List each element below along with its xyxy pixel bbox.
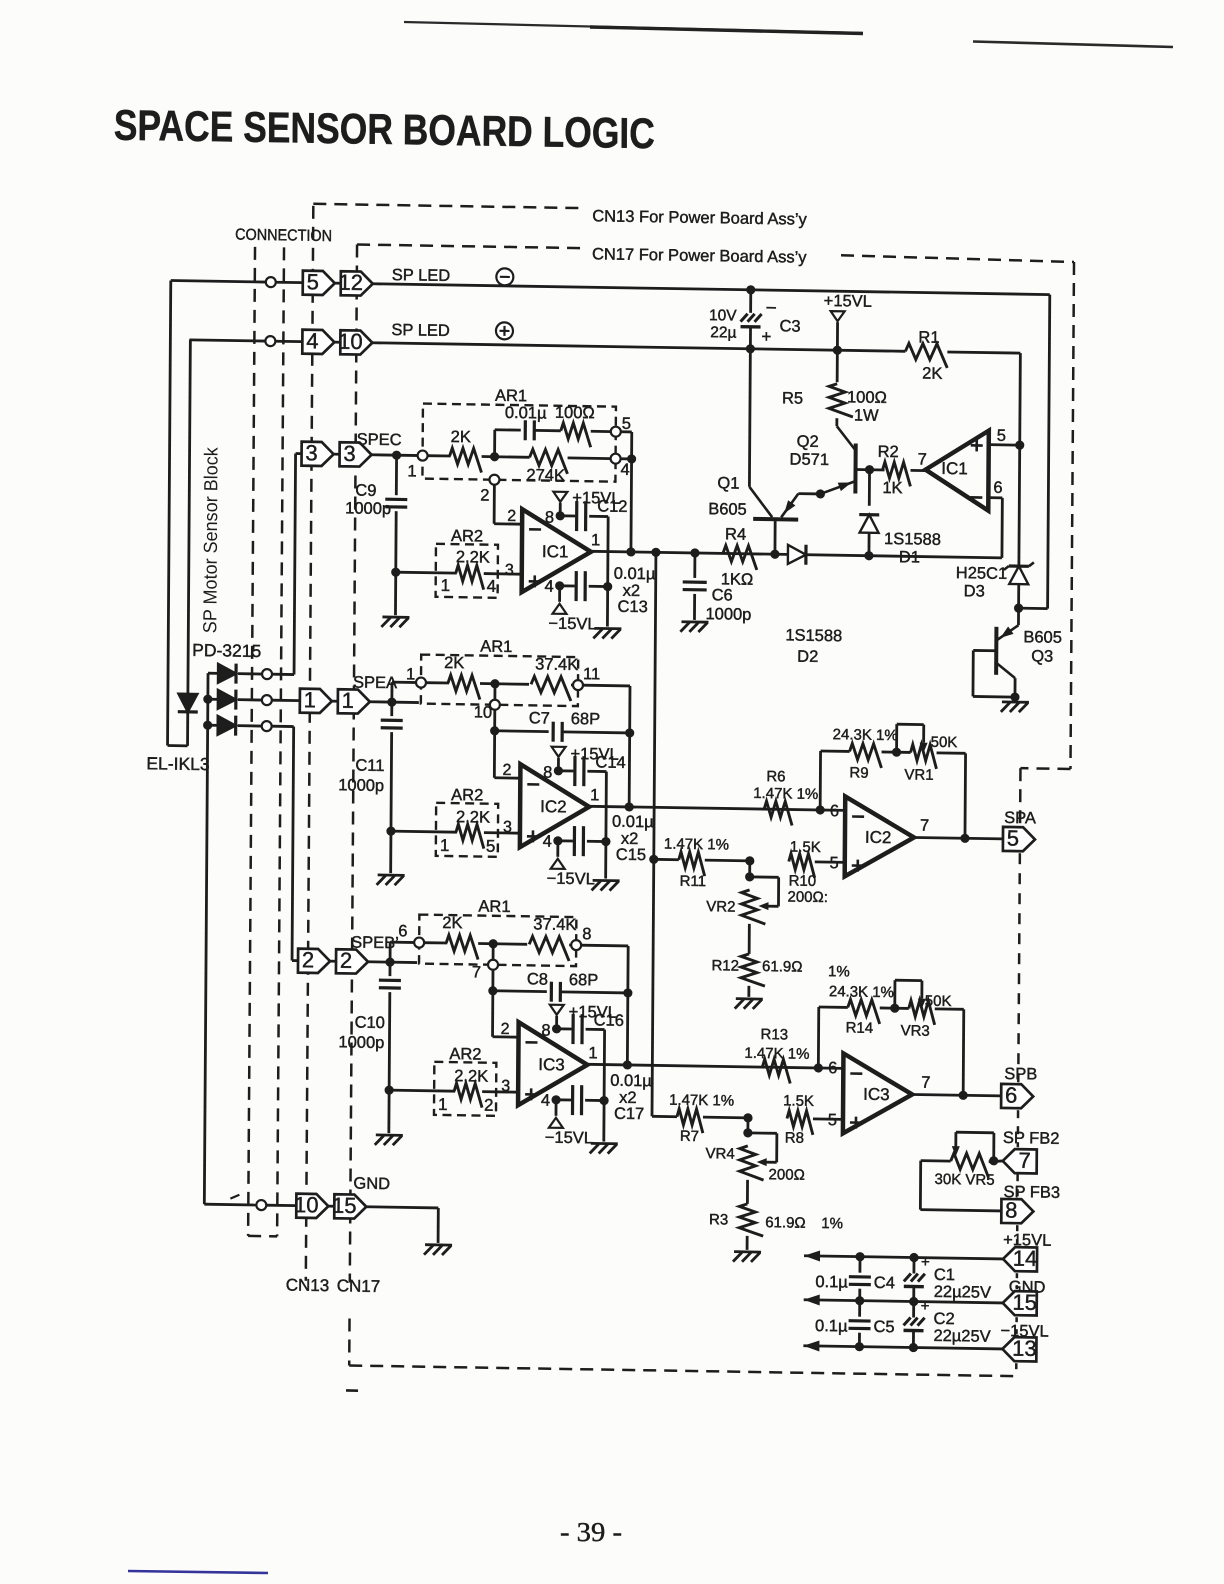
wire SPEA connector to node: [369, 700, 419, 704]
connector CN17 pin 10: [340, 330, 372, 355]
svg-text:−15VL: −15VL: [545, 1129, 593, 1148]
junction C1 bottom: [909, 1297, 918, 1306]
wire SP LED- bus: [372, 284, 1050, 295]
svg-text:SPEA: SPEA: [353, 673, 397, 692]
diode D2 1S1588: [788, 545, 806, 564]
svg-text:6: 6: [828, 1059, 837, 1077]
resistor R5: [836, 350, 839, 382]
svg-text:2: 2: [507, 508, 516, 525]
junction C1 top: [909, 1253, 918, 1262]
transistor Q1 B605: [798, 492, 820, 495]
svg-text:0.1µ: 0.1µ: [815, 1317, 848, 1336]
wire C12/C13 to ground: [606, 517, 610, 627]
svg-text:2: 2: [501, 1021, 510, 1038]
resistor R8 1.5K: [787, 1110, 813, 1134]
AR1 box SPEC: [422, 404, 616, 482]
resistor R11 row: [654, 858, 679, 861]
wire IC3 output row: [587, 1064, 843, 1068]
connector CN17 pin 1: [338, 689, 370, 714]
svg-text:B605: B605: [708, 500, 747, 519]
capacitor C9: [395, 455, 398, 495]
svg-text:5: 5: [307, 269, 319, 294]
op-amp IC2 left: [520, 764, 590, 848]
svg-text:1: 1: [440, 836, 450, 855]
svg-text:1.5K: 1.5K: [790, 839, 821, 856]
pin 6 wire: [988, 496, 1002, 499]
wire node5/node4 to output col: [621, 430, 632, 433]
wire GND to ground: [365, 1207, 438, 1208]
svg-text:+: +: [921, 1298, 930, 1315]
connector CN17 pin 15: [334, 1194, 366, 1219]
svg-text:C1: C1: [934, 1266, 955, 1284]
svg-text:CONNECTION: CONNECTION: [235, 227, 332, 246]
resistor R1: [905, 343, 947, 368]
svg-text:−: −: [766, 298, 777, 319]
svg-text:1000p: 1000p: [345, 499, 391, 518]
svg-text:2: 2: [502, 762, 511, 779]
svg-text:0.01µ: 0.01µ: [610, 1072, 652, 1091]
VR5 wiper bracket: [992, 1133, 995, 1161]
wire C9 to ground: [394, 572, 397, 615]
LED EL-IKL3: [178, 694, 197, 712]
junction C5 bottom: [855, 1342, 864, 1351]
CN17 boundary dashed line: [350, 245, 357, 1283]
wire to cap row: [493, 430, 496, 457]
capacitor C2 22u: [912, 1302, 915, 1318]
svg-text:7: 7: [921, 1074, 930, 1092]
svg-text:8: 8: [1005, 1197, 1017, 1222]
svg-text:- 39 -: - 39 -: [560, 1517, 622, 1547]
contact circle photodiode top: [262, 669, 272, 679]
scan artifact top line left: [404, 22, 863, 33]
svg-text:7: 7: [918, 451, 927, 469]
junction output/feedback col SPEA: [625, 802, 634, 811]
photodiode top: [208, 672, 219, 675]
connector CN13 pin 2: [298, 949, 330, 974]
svg-text:8: 8: [545, 509, 554, 527]
connector CN17 pin 2: [336, 949, 368, 974]
wire VR5 left loop: [921, 1159, 951, 1162]
svg-text:10: 10: [474, 703, 492, 721]
capacitor C4 0.1u: [859, 1257, 862, 1273]
capacitor C14: [558, 769, 573, 772]
svg-text:R3: R3: [709, 1211, 728, 1228]
wire node7 to pin2 IC3L: [491, 991, 494, 1037]
svg-text:5: 5: [1007, 825, 1019, 850]
svg-text:6: 6: [1005, 1082, 1017, 1107]
svg-text:1.47K 1%: 1.47K 1%: [753, 785, 818, 803]
resistor R9: [849, 743, 881, 768]
svg-text:EL-IKL3: EL-IKL3: [146, 753, 209, 774]
pin 4 -15VL IC3L: [551, 1095, 560, 1104]
capacitor C8 68P: [493, 989, 547, 993]
junction C11 bottom: [386, 826, 395, 835]
svg-text:2.2K: 2.2K: [456, 808, 490, 827]
svg-text:5: 5: [622, 415, 631, 433]
svg-text:R14: R14: [846, 1019, 874, 1036]
op-amp IC2 right: [845, 796, 915, 877]
svg-text:12: 12: [338, 270, 363, 295]
svg-text:+15VL: +15VL: [824, 292, 872, 311]
node 1 SPEC: [418, 451, 428, 461]
junction output/node4 col: [626, 547, 635, 556]
svg-text:2: 2: [480, 487, 489, 505]
capacitor C12: [560, 514, 575, 517]
connector CN13 pin 3: [302, 442, 334, 467]
resistor 2K AR1 SPEA: [426, 681, 449, 684]
ground IC3L bypass: [591, 1142, 618, 1145]
resistor 37.4K AR1 SPEA: [531, 676, 571, 701]
resistor 2K AR1 SPEC: [428, 454, 451, 457]
wire left vertical from SP LED- down: [168, 281, 171, 746]
pin 8 +15VL IC2L: [554, 766, 563, 775]
ground C11: [378, 874, 405, 877]
svg-text:1: 1: [441, 576, 451, 595]
GND row wire: [204, 1203, 256, 1207]
wire IC2 output row: [589, 806, 845, 810]
pin 5 wire: [989, 443, 1020, 446]
ground R3: [734, 1250, 761, 1253]
capacitor C15: [558, 839, 573, 842]
resistor R6: [764, 801, 792, 825]
node 6 SPEB: [414, 938, 424, 948]
junction AR1 mid SPEA: [490, 679, 499, 688]
svg-text:30K VR5: 30K VR5: [935, 1171, 995, 1189]
junction C8 right: [623, 988, 632, 997]
svg-text:R9: R9: [849, 764, 868, 781]
capacitor 0.01u AR1 SPEC: [524, 420, 527, 440]
AR2 box SPEC: [436, 544, 498, 598]
svg-text:2: 2: [484, 1096, 494, 1115]
node 11 SPEA: [573, 680, 583, 690]
trimmer VR2: [748, 861, 751, 877]
svg-text:2.2K: 2.2K: [456, 548, 490, 567]
CN13 boundary dashed line: [306, 206, 314, 1281]
contact circle row2: [265, 336, 275, 346]
capacitor C17: [556, 1098, 571, 1101]
capacitor C5 0.1u: [858, 1301, 861, 1317]
junction D1 top: [865, 465, 874, 474]
svg-text:R11: R11: [680, 873, 707, 890]
svg-text:7: 7: [472, 963, 481, 981]
connector 14: [1003, 1247, 1037, 1272]
connector SP FB2 7: [1003, 1149, 1037, 1174]
svg-text:IC3: IC3: [863, 1085, 890, 1104]
svg-text:IC3: IC3: [538, 1055, 565, 1074]
svg-text:61.9Ω: 61.9Ω: [765, 1214, 806, 1232]
resistor R4: [723, 545, 757, 570]
svg-text:C11: C11: [355, 757, 384, 775]
junction C9 bottom: [391, 567, 400, 576]
svg-text:AR2: AR2: [451, 527, 483, 546]
connector 13: [1002, 1337, 1036, 1362]
wire SP LED+ row left: [189, 340, 265, 341]
trimmer VR3 50K: [909, 1000, 935, 1024]
junction SPEA: [387, 697, 396, 706]
svg-text:7: 7: [1019, 1148, 1031, 1173]
svg-text:1: 1: [342, 688, 354, 713]
trimmer VR1 50K: [910, 744, 936, 768]
svg-text:R5: R5: [782, 389, 803, 407]
scan artifact top line right: [973, 42, 1173, 48]
junction C15 col: [601, 837, 610, 846]
svg-text:AR2: AR2: [451, 786, 483, 805]
svg-text:PD-3215: PD-3215: [192, 640, 261, 661]
svg-text:2: 2: [340, 948, 352, 973]
connector CN13 pin 1: [300, 689, 332, 714]
svg-text:2K: 2K: [442, 914, 462, 932]
svg-text:C10: C10: [355, 1014, 385, 1032]
junction C9 top: [392, 450, 401, 459]
svg-text:2K: 2K: [922, 365, 942, 383]
wire Q1 base down: [774, 519, 777, 554]
svg-text:24.3K 1%: 24.3K 1%: [829, 983, 894, 1001]
svg-text:0.01µ: 0.01µ: [505, 404, 547, 423]
svg-text:D2: D2: [797, 648, 818, 666]
ground Q3: [1014, 697, 1017, 700]
svg-text:VR4: VR4: [705, 1145, 734, 1162]
junction R14/VR3 wiper: [890, 1004, 899, 1013]
svg-text:IC1: IC1: [941, 459, 968, 478]
junction VR1 output: [960, 834, 969, 843]
photodiode mid: [208, 698, 219, 701]
ground R12: [736, 997, 763, 1000]
junction R6/R9: [816, 805, 825, 814]
wire photodiode bottom to SPEB: [272, 725, 294, 728]
connector SP FB3 8: [1001, 1199, 1033, 1224]
contact circle row1: [266, 277, 276, 287]
svg-text:0.1µ: 0.1µ: [815, 1273, 848, 1292]
svg-text:22µ25V: 22µ25V: [934, 1283, 991, 1302]
svg-text:R2: R2: [878, 443, 899, 461]
svg-text:CN13: CN13: [286, 1275, 330, 1295]
wire IC2R output to SPA: [915, 838, 1003, 839]
svg-text:VR2: VR2: [706, 898, 735, 915]
contact circle GND row: [256, 1200, 266, 1210]
pin 4 -15VL: [555, 581, 564, 590]
transistor Q2 D571: [835, 418, 838, 426]
resistor R13: [762, 1059, 790, 1083]
resistor 2.2K AR2 SPEA: [391, 831, 457, 832]
resistor R14: [848, 999, 880, 1024]
wire photodiode mid to SPEA connector: [272, 699, 300, 702]
wire node8 to col: [581, 944, 628, 948]
junction R11/R10/VR2: [649, 855, 658, 864]
svg-text:+: +: [761, 327, 771, 346]
ground C6: [681, 620, 708, 623]
wire SP LED- right vertical: [1048, 295, 1050, 609]
resistor R2: [856, 468, 885, 471]
Q3 base bracket: [973, 649, 996, 652]
svg-text:C13: C13: [617, 598, 647, 616]
svg-text:IC1: IC1: [542, 542, 569, 561]
wire SPEB up to node6: [389, 942, 392, 962]
svg-text:8: 8: [543, 764, 552, 782]
contact circle photodiode mid: [262, 695, 272, 705]
svg-text:100Ω: 100Ω: [847, 388, 887, 407]
svg-text:1.47K 1%: 1.47K 1%: [664, 835, 729, 853]
svg-text:GND: GND: [353, 1175, 390, 1194]
resistor 2.2K AR2 SPEB: [389, 1090, 455, 1091]
op-amp IC1 left: [522, 509, 592, 593]
wire +15VL rail: [804, 1256, 1003, 1259]
node 1 SPEA: [416, 678, 426, 688]
wire Q1 collector to C3: [748, 349, 752, 487]
svg-text:1K: 1K: [882, 479, 902, 497]
wire IC1L output row: [591, 551, 1002, 558]
wire VR3 to output: [962, 1009, 965, 1095]
resistor R3: [746, 1180, 749, 1204]
svg-text:13: 13: [1012, 1336, 1037, 1361]
junction C7 left: [490, 726, 499, 735]
junction C4 top: [855, 1252, 864, 1261]
svg-text:200Ω:: 200Ω:: [787, 888, 828, 906]
svg-text:C9: C9: [355, 482, 376, 500]
svg-text:11: 11: [583, 665, 600, 683]
svg-text:1: 1: [590, 786, 599, 804]
resistor R7 row: [652, 1115, 677, 1118]
wire GND rail: [804, 1300, 1003, 1303]
svg-text:1.5K: 1.5K: [783, 1092, 814, 1109]
svg-text:SP FB2: SP FB2: [1003, 1129, 1060, 1148]
svg-text:CN17 For Power Board Ass’y: CN17 For Power Board Ass’y: [592, 245, 807, 266]
wire node11 to col: [583, 684, 630, 688]
power +15VL top: [831, 311, 845, 321]
junction C10 bottom: [385, 1085, 394, 1094]
svg-text:−15VL: −15VL: [547, 870, 595, 889]
svg-text:C2: C2: [934, 1310, 955, 1328]
wire node7 to C8 row: [491, 970, 494, 991]
junction VR5 right: [989, 1156, 998, 1165]
svg-text:C3: C3: [779, 317, 800, 335]
svg-text:C4: C4: [874, 1274, 895, 1292]
connector CN17 pin 12: [341, 271, 373, 296]
svg-text:Q2: Q2: [797, 433, 819, 451]
svg-text:6: 6: [398, 922, 407, 940]
ground C10: [376, 1134, 403, 1137]
svg-text:C5: C5: [873, 1318, 894, 1336]
svg-text:50K: 50K: [925, 993, 952, 1010]
junction D1 bottom: [864, 551, 873, 560]
svg-text:SP Motor Sensor Block: SP Motor Sensor Block: [200, 447, 222, 634]
node 8 SPEB: [571, 940, 581, 950]
junction +15VL node: [833, 346, 842, 355]
svg-text:2K: 2K: [444, 654, 464, 672]
svg-text:3: 3: [305, 440, 317, 465]
plus-circle symbol: [496, 322, 513, 339]
pin 8 +15VL IC3L: [552, 1024, 561, 1033]
node 4 SPEC: [611, 454, 621, 464]
svg-text:VR3: VR3: [901, 1022, 930, 1039]
svg-text:7: 7: [920, 817, 929, 835]
svg-text:37.4K: 37.4K: [535, 655, 578, 674]
svg-text:IC2: IC2: [865, 828, 892, 847]
zener diode D3 H25C1: [1017, 445, 1021, 566]
junction C2 bottom: [909, 1343, 918, 1352]
svg-text:3: 3: [503, 819, 512, 836]
svg-text:3: 3: [505, 562, 514, 579]
wire SPEA up to node1: [390, 682, 393, 702]
trimmer VR5 30K: [951, 1153, 989, 1178]
capacitor C1 22u: [913, 1258, 916, 1274]
wire LED cathode bracket: [168, 744, 188, 747]
svg-text:22µ25V: 22µ25V: [933, 1327, 990, 1346]
svg-text:15: 15: [1012, 1290, 1037, 1315]
ground C9: [382, 616, 409, 619]
svg-text:4: 4: [544, 578, 553, 596]
resistor 100ohm AR1 SPEC: [561, 423, 591, 447]
CN17 boundary dashed segments between connectors: [1018, 853, 1020, 1082]
svg-text:274K: 274K: [526, 466, 565, 485]
svg-text:SP LED: SP LED: [391, 321, 450, 340]
svg-text:1S1588: 1S1588: [785, 626, 842, 645]
svg-text:Q3: Q3: [1031, 647, 1053, 665]
svg-text:1.47K 1%: 1.47K 1%: [744, 1045, 809, 1063]
svg-text:VR1: VR1: [904, 766, 933, 783]
svg-text:B605: B605: [1023, 628, 1062, 647]
wire C16/C17 ground col: [602, 1030, 606, 1142]
svg-text:0.01µ: 0.01µ: [612, 813, 654, 832]
diode D1 1S1588: [868, 470, 871, 506]
svg-text:SPEC: SPEC: [357, 431, 402, 450]
svg-text:10V: 10V: [709, 307, 737, 324]
node 10 SPEA: [493, 684, 496, 700]
trimmer VR4: [746, 1118, 749, 1133]
capacitor C6: [693, 553, 696, 578]
svg-text:1%: 1%: [821, 1215, 843, 1232]
svg-text:50K: 50K: [931, 734, 958, 751]
svg-text:H25C1: H25C1: [956, 564, 1007, 583]
svg-text:AR1: AR1: [480, 638, 512, 657]
photodiode common anode vertical wire: [204, 673, 208, 1204]
svg-text:D571: D571: [790, 450, 830, 469]
resistor 37.4K AR1 SPEB: [529, 936, 569, 961]
ground IC2L bypass: [593, 879, 620, 882]
resistor 2K AR1 SPEB: [424, 941, 447, 944]
junction pin5/R1: [1015, 440, 1024, 449]
svg-text:2.2K: 2.2K: [454, 1067, 488, 1086]
wire node10 to pin2: [493, 731, 496, 778]
svg-text:R13: R13: [761, 1026, 789, 1043]
svg-text:1000p: 1000p: [705, 605, 751, 624]
CONNECTION dashed box: [248, 247, 255, 1236]
pin 4 -15VL IC2L: [553, 836, 562, 845]
resistor 2.2K AR2 SPEC: [396, 571, 457, 575]
svg-text:4: 4: [541, 1092, 550, 1110]
svg-text:SPACE SENSOR BOARD LOGIC: SPACE SENSOR BOARD LOGIC: [114, 102, 655, 159]
photodiode bottom: [208, 724, 219, 727]
junction C8 left: [488, 986, 497, 995]
junction D3/Q3/SP LED-: [1014, 603, 1023, 612]
svg-text:SP LED: SP LED: [392, 266, 451, 285]
svg-text:2K: 2K: [451, 428, 471, 446]
wire LED anode vertical: [188, 340, 190, 694]
junction R7/R8/VR4: [743, 1113, 752, 1122]
svg-text:1: 1: [406, 665, 415, 683]
junction output/feedback col SPEB: [623, 1060, 632, 1069]
svg-text:100Ω: 100Ω: [555, 404, 595, 423]
svg-text:Q1: Q1: [717, 474, 739, 492]
connector CN13 pin 5: [303, 271, 335, 296]
node 7 SPEB: [492, 944, 495, 960]
svg-text:CN17: CN17: [337, 1276, 381, 1296]
svg-text:R10: R10: [789, 872, 817, 889]
svg-text:SPA: SPA: [1004, 809, 1036, 828]
svg-text:C6: C6: [712, 586, 733, 604]
svg-text:1%: 1%: [828, 963, 850, 980]
svg-text:1.47K 1%: 1.47K 1%: [669, 1092, 734, 1110]
capacitor C7 68P: [495, 729, 549, 733]
